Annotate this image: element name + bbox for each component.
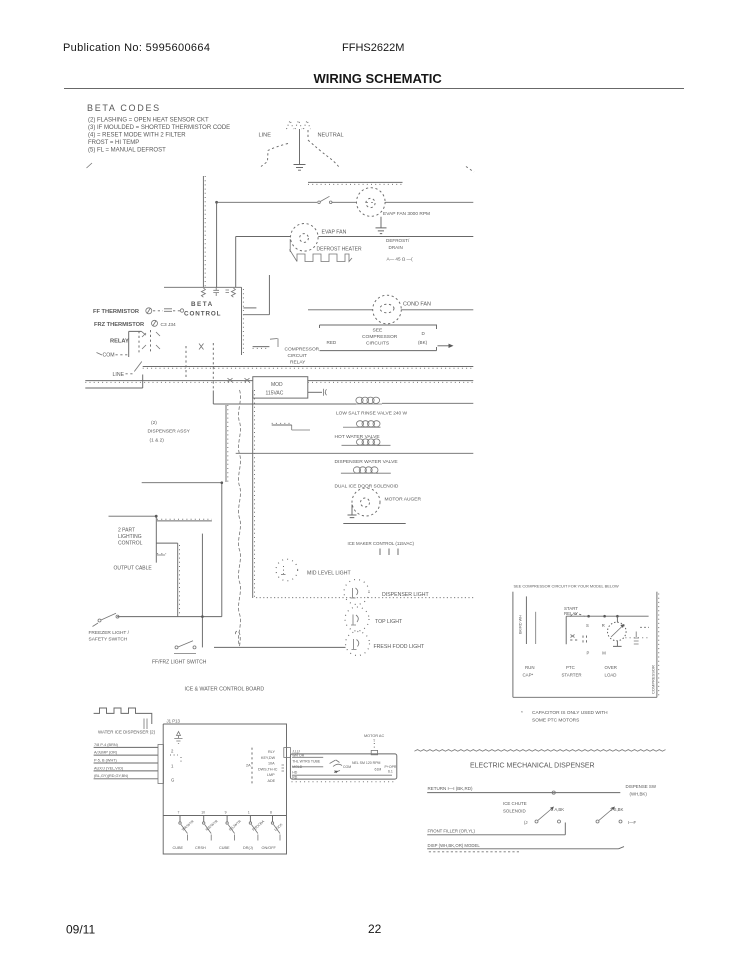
- tick wire segment: [253, 346, 270, 348]
- compressor note bracket bottom: [320, 347, 437, 351]
- dispenser valve coil: [342, 439, 391, 445]
- svg-text:DISPENSER LIGHT: DISPENSER LIGHT: [382, 592, 430, 598]
- svg-text:CUBE: CUBE: [173, 846, 184, 850]
- svg-text:STARTER: STARTER: [562, 673, 582, 678]
- run capacitor symbol: [634, 632, 639, 645]
- svg-text:THL WTRS TUBE: THL WTRS TUBE: [292, 759, 321, 763]
- hatched harness line 1: [143, 366, 474, 368]
- svg-text:I—F: I—F: [628, 820, 636, 825]
- svg-text:DWS,TH-IC: DWS,TH-IC: [258, 767, 278, 771]
- svg-text:(BK): (BK): [418, 340, 428, 345]
- note block BETA CODES: [87, 103, 230, 154]
- lamp feed wire 1: [201, 534, 203, 648]
- splice marks on harness line: [228, 378, 250, 382]
- svg-text:DISPENSER WATER VALVE: DISPENSER WATER VALVE: [335, 459, 399, 465]
- connector from mod box: [308, 391, 322, 393]
- svg-text:WATER ICE DISPENSER (2): WATER ICE DISPENSER (2): [98, 729, 156, 734]
- svg-text:(2): (2): [151, 420, 157, 426]
- wire to evap fan: [332, 201, 356, 203]
- svg-text:COND FAN: COND FAN: [403, 302, 431, 308]
- svg-text:LOCK: LOCK: [274, 822, 284, 832]
- defrost heater element: [290, 250, 353, 262]
- svg-text:7: 7: [178, 811, 180, 815]
- svg-text:CONTROL: CONTROL: [118, 541, 143, 547]
- svg-text:D: D: [422, 331, 426, 336]
- svg-text:ON/OFF: ON/OFF: [262, 846, 277, 850]
- wire evap fan line left: [217, 201, 317, 203]
- svg-text:2A: 2A: [246, 764, 251, 768]
- hot water valve coil: [343, 421, 381, 428]
- svg-text:ICE & WATER CONTROL BOARD: ICE & WATER CONTROL BOARD: [185, 687, 265, 693]
- svg-text:NEUTRAL: NEUTRAL: [318, 133, 344, 139]
- svg-text:EVAP FAN 3000 RPM: EVAP FAN 3000 RPM: [383, 211, 430, 217]
- svg-text:OVER: OVER: [605, 665, 617, 670]
- svg-text:DISPENSE SW: DISPENSE SW: [626, 784, 657, 789]
- svg-text:SEE COMPRESSOR CIRCUIT FOR YOU: SEE COMPRESSOR CIRCUIT FOR YOUR MODEL BE…: [514, 584, 620, 589]
- svg-text:PTC: PTC: [566, 665, 575, 670]
- arrow to compressor detail: [438, 345, 450, 347]
- svg-text:TOP LIGHT: TOP LIGHT: [375, 619, 403, 625]
- svg-text:(4) = RESET MODE WITH 2 FILTER: (4) = RESET MODE WITH 2 FILTER: [88, 133, 186, 139]
- svg-text:M: M: [602, 651, 606, 656]
- evap fan 2 motor circle: [291, 224, 319, 252]
- wire down to control from evap line: [216, 202, 218, 287]
- svg-text:LINE: LINE: [113, 372, 125, 378]
- svg-text:EVAP FAN: EVAP FAN: [322, 230, 347, 236]
- neutral cord right: [308, 130, 339, 167]
- board inner bus: [163, 815, 286, 817]
- svg-text:WIRING SCHEMATIC: WIRING SCHEMATIC: [314, 71, 443, 86]
- svg-text:10: 10: [201, 811, 205, 815]
- lighting feed line: [142, 482, 222, 484]
- svg-text:OUTPUT CABLE: OUTPUT CABLE: [114, 566, 153, 572]
- svg-text:RD: RD: [292, 776, 298, 780]
- svg-text:FRZ THERMISTOR: FRZ THERMISTOR: [94, 322, 144, 328]
- svg-text:LMP: LMP: [267, 773, 275, 777]
- line cord left: [261, 144, 288, 167]
- stub wire to cond fan line: [243, 307, 256, 309]
- svg-text:DEFROST HEATER: DEFROST HEATER: [317, 247, 362, 253]
- svg-text:FF/FRZ LIGHT SWITCH: FF/FRZ LIGHT SWITCH: [152, 660, 207, 666]
- svg-text:KEY,DW: KEY,DW: [261, 756, 276, 760]
- dotted cabinet line: [256, 597, 474, 599]
- fresh food light wire: [214, 646, 346, 648]
- svg-text:P-5, B (WHT): P-5, B (WHT): [94, 758, 118, 762]
- svg-text:RED: RED: [327, 340, 337, 345]
- compressor note bracket top: [320, 325, 437, 329]
- lighting inner corner: [156, 542, 177, 544]
- harness hatched vertical a: [225, 405, 227, 482]
- svg-text:SEE: SEE: [373, 328, 384, 334]
- node junction on evap fan line: [215, 201, 218, 204]
- svg-text:7/8 P-4 (BRN): 7/8 P-4 (BRN): [94, 743, 119, 747]
- svg-text:RELAY: RELAY: [110, 339, 129, 345]
- compressor main wire: [566, 616, 648, 644]
- header rule: [64, 88, 684, 90]
- svg-text:S: S: [586, 623, 589, 628]
- ice maker pins: [380, 549, 398, 556]
- ice maker module box: [290, 754, 396, 779]
- svg-text:Publication No: 5995600664: Publication No: 5995600664: [63, 42, 210, 54]
- beta control board top edge: [164, 286, 241, 288]
- svg-text:CIRCUIT: CIRCUIT: [288, 353, 308, 359]
- wire evap fan line right: [385, 201, 473, 203]
- mid connector bracket: [251, 748, 253, 784]
- small ticks: [157, 553, 166, 555]
- hatched cabinet line top: [308, 181, 403, 183]
- svg-text:DUAL ICE DOOR SOLENOID: DUAL ICE DOOR SOLENOID: [335, 484, 399, 490]
- svg-text:RUN: RUN: [525, 665, 535, 670]
- svg-text:C3 J34: C3 J34: [161, 322, 177, 328]
- power plug prong middle: [295, 121, 302, 130]
- resistor 2 inside control: [226, 288, 236, 297]
- svg-text:61M: 61M: [375, 767, 382, 771]
- svg-text:CRSH: CRSH: [195, 846, 206, 850]
- lighting control corner: [109, 516, 157, 562]
- svg-text:SOME PTC MOTORS: SOME PTC MOTORS: [532, 717, 579, 723]
- svg-text:G: G: [171, 778, 175, 783]
- control board right edge hatched: [241, 287, 243, 355]
- svg-text:WA/WTR: WA/WTR: [181, 819, 195, 832]
- svg-text:DEFROST/: DEFROST/: [386, 238, 410, 243]
- svg-text:MOD: MOD: [271, 382, 283, 388]
- svg-text:P(L)WTR: P(L)WTR: [228, 819, 242, 832]
- svg-text:COMPRESSOR: COMPRESSOR: [362, 334, 398, 340]
- ground at auger motor: [348, 505, 357, 518]
- top light lamp: [345, 607, 369, 631]
- separator line: [343, 523, 405, 525]
- defrost heater tap: [289, 239, 291, 252]
- pin labels: [258, 750, 278, 783]
- lighting control hatched top: [157, 520, 212, 522]
- heater resistor element: [272, 424, 292, 426]
- cond fan line left: [308, 309, 373, 311]
- svg-text:RELAY: RELAY: [290, 360, 306, 366]
- svg-text:T: T: [373, 739, 376, 743]
- ground symbol: [294, 165, 306, 171]
- compressor box right edge hatched: [656, 592, 658, 698]
- svg-text:BETA CODES: BETA CODES: [87, 103, 161, 113]
- resistor inside control: [201, 288, 205, 297]
- ice door switch: [596, 820, 599, 823]
- svg-text:FREEZER LIGHT /: FREEZER LIGHT /: [89, 630, 130, 636]
- svg-text:COMPRESSOR: COMPRESSOR: [285, 347, 320, 353]
- compressor box left edge: [512, 592, 514, 698]
- light switch bus: [117, 616, 222, 618]
- defrost thermostat switch: [318, 201, 321, 204]
- svg-text:A/JUMP (OR): A/JUMP (OR): [94, 751, 118, 755]
- freezer safety switch: [98, 619, 101, 622]
- control board outline: [163, 724, 286, 854]
- svg-text:CIRCUITS: CIRCUITS: [366, 341, 390, 347]
- svg-text:FFHS2622M: FFHS2622M: [342, 42, 404, 54]
- svg-text:ADE: ADE: [268, 779, 276, 783]
- svg-text:(BL,GY)(RD,GY,BN): (BL,GY)(RD,GY,BN): [94, 774, 129, 778]
- svg-text:CUBE: CUBE: [219, 846, 230, 850]
- cond fan motor circle: [373, 295, 402, 324]
- wire defrost line right: [318, 236, 473, 238]
- svg-text:22: 22: [368, 922, 382, 936]
- svg-text:DRAIN: DRAIN: [389, 245, 403, 250]
- svg-text:CAP*: CAP*: [523, 673, 534, 678]
- harness hatched vertical c: [252, 390, 254, 598]
- svg-text:(WH,BK): (WH,BK): [630, 791, 648, 796]
- relay contacts: [139, 330, 151, 354]
- svg-text:CAPACITOR IS ONLY USED WITH: CAPACITOR IS ONLY USED WITH: [532, 710, 608, 716]
- fresh food light lamp: [346, 632, 370, 656]
- svg-text:J1 P13: J1 P13: [167, 719, 181, 724]
- svg-text:BETA: BETA: [191, 301, 214, 308]
- svg-text:RETURN I—I (BK,RD): RETURN I—I (BK,RD): [428, 786, 474, 791]
- svg-text:115VAC: 115VAC: [266, 391, 284, 397]
- hatched wire from line to control: [202, 176, 204, 287]
- svg-text:8: 8: [270, 811, 272, 815]
- svg-text:DR(J): DR(J): [243, 846, 254, 850]
- freezer light switch: [175, 646, 178, 649]
- svg-text:ICE/WTR: ICE/WTR: [205, 819, 219, 832]
- svg-text:09/11: 09/11: [66, 923, 95, 937]
- connector bars: [144, 719, 147, 730]
- dispenser valve line: [236, 452, 474, 454]
- svg-text:LINE: LINE: [259, 133, 272, 139]
- svg-text:MOTOR AC: MOTOR AC: [364, 734, 384, 738]
- return wire: [427, 792, 620, 794]
- svg-text:DISP (WH,BK,OR) MODEL: DISP (WH,BK,OR) MODEL: [428, 843, 481, 848]
- svg-text:(3) IF MOULDED = SHORTED THERM: (3) IF MOULDED = SHORTED THERMISTOR CODE: [88, 125, 230, 131]
- svg-text:SAFETY SWITCH: SAFETY SWITCH: [89, 637, 128, 643]
- svg-text:FRONT FILLER (OR,YL): FRONT FILLER (OR,YL): [428, 828, 476, 833]
- module switch arcs: [330, 760, 342, 773]
- wire labels: [94, 743, 129, 778]
- coil 1 feed wire: [213, 391, 356, 405]
- svg-text:MOTOR AUGER: MOTOR AUGER: [385, 497, 422, 503]
- svg-text:LOW SALT RINSE VALVE 240 W: LOW SALT RINSE VALVE 240 W: [336, 411, 408, 417]
- svg-text:LIGHTING: LIGHTING: [118, 534, 142, 540]
- evap fan motor circle: [357, 188, 386, 217]
- ground pin wire: [299, 129, 301, 164]
- coil 1 wire right: [382, 402, 473, 404]
- svg-text:FRESH FOOD LIGHT: FRESH FOOD LIGHT: [374, 644, 426, 650]
- ui board crenellated lead: [94, 708, 152, 724]
- svg-text:(2) FLASHING = OPEN HEAT SENSO: (2) FLASHING = OPEN HEAT SENSOR CKT: [88, 118, 209, 124]
- svg-text:COMPRESSOR: COMPRESSOR: [651, 665, 656, 694]
- svg-text:LOAD: LOAD: [605, 673, 617, 678]
- svg-text:ICE CHUTE: ICE CHUTE: [503, 801, 527, 806]
- switch drop wire: [564, 823, 566, 835]
- relay contact marks: [570, 636, 586, 645]
- svg-text:P: P: [587, 651, 590, 656]
- module thermal fuse: [371, 750, 377, 754]
- svg-text:COM: COM: [103, 353, 115, 359]
- relay contact arrows: [199, 344, 204, 350]
- stray mark near right margin: [466, 167, 474, 173]
- line switch blade: [134, 362, 142, 372]
- harness wavy vertical b: [235, 390, 240, 646]
- svg-text:FF THERMISTOR: FF THERMISTOR: [93, 309, 139, 315]
- mid level light lamp: [276, 559, 298, 581]
- svg-text:ELECTRIC MECHANICAL DISPENSER: ELECTRIC MECHANICAL DISPENSER: [470, 763, 595, 770]
- auger switch: [535, 820, 538, 823]
- svg-text:FROST = HI TEMP: FROST = HI TEMP: [88, 140, 139, 146]
- svg-text:BK/RD WH: BK/RD WH: [519, 615, 523, 634]
- svg-text:CONTROL: CONTROL: [184, 311, 221, 318]
- lighting hatched right edge: [177, 543, 179, 616]
- hatched harness line 2: [85, 380, 473, 382]
- auger motor circle: [352, 488, 380, 516]
- wire defrost line corner: [236, 237, 291, 288]
- svg-text:HD: HD: [292, 770, 298, 774]
- mod control box: [253, 377, 308, 398]
- svg-text:ICE MAKER CONTROL (115VAC): ICE MAKER CONTROL (115VAC): [348, 541, 415, 546]
- svg-text:P+OPR: P+OPR: [385, 765, 397, 769]
- compressor feed wire: [525, 596, 527, 644]
- lamp feed wire 2: [221, 483, 223, 617]
- board ground: [174, 732, 182, 744]
- svg-text:NEL SM 120 RPM: NEL SM 120 RPM: [352, 761, 381, 765]
- harness wires into board: [94, 747, 158, 778]
- relay coil wire: [129, 331, 142, 357]
- svg-text:1: 1: [171, 764, 174, 769]
- power plug prong left: [287, 121, 294, 130]
- svg-text:2: 2: [171, 749, 174, 754]
- stray tick mark: [87, 163, 93, 168]
- connector block: [158, 745, 164, 784]
- cond fan line right: [401, 309, 473, 311]
- low salt rinse valve coil: [356, 397, 382, 404]
- capacitor inside control: [213, 287, 219, 296]
- hook wire to compressor feed: [243, 275, 269, 315]
- dispenser light lamp: [344, 580, 369, 605]
- svg-text:DISPENSER ASSY: DISPENSER ASSY: [148, 429, 191, 435]
- wire from switch down and left: [85, 375, 142, 389]
- svg-text:(5) FL = MANUAL DEFROST: (5) FL = MANUAL DEFROST: [88, 148, 166, 154]
- svg-text:SOLENOID: SOLENOID: [503, 809, 526, 814]
- svg-text:R: R: [602, 623, 605, 628]
- power plug prong right: [304, 121, 311, 130]
- ground below evap fan: [376, 217, 387, 234]
- svg-text:RLY: RLY: [268, 750, 275, 754]
- dispenser section tear line: [414, 750, 665, 752]
- svg-text:*: *: [521, 710, 523, 716]
- svg-text:2 PART: 2 PART: [118, 528, 135, 534]
- svg-text:P(R)CBA: P(R)CBA: [251, 819, 265, 832]
- svg-text:6.1: 6.1: [388, 770, 393, 774]
- svg-text:(1 & 2): (1 & 2): [150, 438, 165, 444]
- compressor box bottom edge: [513, 696, 657, 698]
- svg-text:1: 1: [248, 811, 250, 815]
- overload element: [625, 637, 647, 639]
- svg-text:AUX/J (YEL,VIO): AUX/J (YEL,VIO): [94, 766, 124, 770]
- module row wires: [292, 757, 392, 775]
- edge pin box: [284, 748, 291, 758]
- svg-text:MID LEVEL LIGHT: MID LEVEL LIGHT: [307, 571, 351, 577]
- svg-text:A— 45 Ω —(: A— 45 Ω —(: [387, 257, 414, 262]
- svg-text:(J: (J: [524, 820, 528, 825]
- compressor motor circle: [616, 617, 618, 622]
- svg-text:9: 9: [225, 811, 227, 815]
- module internal labels: [292, 750, 397, 780]
- svg-text:10A: 10A: [268, 762, 275, 766]
- solenoid coil: [341, 467, 391, 473]
- svg-text:COM: COM: [343, 765, 351, 769]
